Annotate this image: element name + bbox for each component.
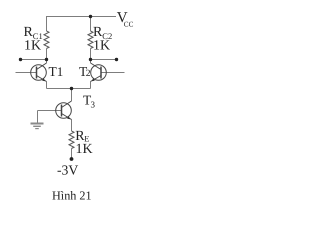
wire T3 base to ground [38, 110, 62, 112]
node T1 collector junction [45, 58, 48, 61]
wire T3 collector lead [71, 89, 73, 102]
svg-text:-3V: -3V [57, 163, 78, 178]
label T3 [83, 93, 96, 110]
transistor T3 [56, 101, 72, 120]
resistor RE [69, 131, 74, 149]
wire T3 emitter to RE [71, 120, 73, 132]
svg-text:1K: 1K [76, 142, 93, 157]
wire Vcc top rail [46, 16, 116, 18]
svg-text:2: 2 [86, 69, 91, 79]
ground [31, 124, 44, 129]
svg-text:CC: CC [124, 21, 134, 29]
node -3V terminal [70, 157, 74, 161]
label RC1 [24, 25, 43, 54]
label RE [75, 129, 92, 157]
wire RC2 to T2 collector [90, 49, 92, 64]
label RC2 [93, 25, 112, 54]
label T1 [49, 64, 64, 79]
wire RC1 to T1 collector [46, 49, 48, 64]
wire RC2 top lead [90, 17, 92, 32]
resistor RC2 [88, 31, 93, 49]
wire common emitter rail [47, 88, 91, 90]
node Vcc rail junction [89, 15, 92, 18]
node common emitter junction [70, 87, 73, 90]
node output 2 terminal [115, 58, 118, 61]
svg-text:1K: 1K [93, 39, 110, 54]
wire T1 emitter drop [46, 82, 48, 89]
label Vcc [117, 10, 134, 29]
transistor T1 [31, 63, 47, 82]
wire T1 base lead [16, 72, 37, 74]
label T2 [79, 64, 91, 79]
wire RE to -3V [71, 149, 73, 160]
svg-text:Hình 21: Hình 21 [52, 189, 92, 203]
wire T2 base lead [101, 72, 125, 74]
wire output stub left [21, 59, 47, 61]
resistor RC1 [44, 31, 49, 49]
wire RC1 top lead [46, 17, 48, 32]
wire output stub right [91, 59, 117, 61]
svg-text:3: 3 [91, 100, 96, 110]
node T2 collector junction [89, 58, 92, 61]
node output 1 terminal [19, 58, 22, 61]
wire T2 emitter drop [90, 82, 92, 89]
transistor T2 [91, 63, 107, 82]
svg-text:1: 1 [57, 64, 64, 79]
svg-text:1K: 1K [24, 39, 41, 54]
